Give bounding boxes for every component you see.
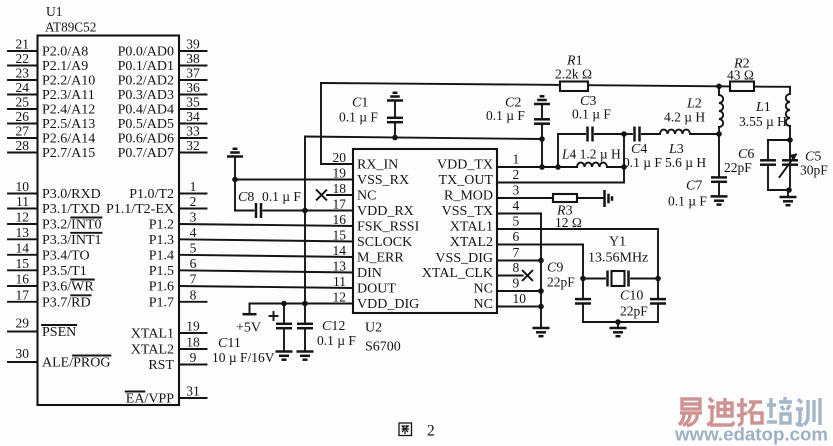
svg-text:22: 22 xyxy=(16,51,30,66)
figure caption 图 2 xyxy=(399,423,412,436)
svg-text:26: 26 xyxy=(16,109,30,124)
wire U2 pin 5 XTAL1 xyxy=(497,228,658,230)
wire P1.4 to M_ERR xyxy=(179,255,353,257)
svg-text:+5V: +5V xyxy=(236,321,261,336)
svg-text:EA/VPP: EA/VPP xyxy=(126,392,174,407)
svg-text:P1.1/T2-EX: P1.1/T2-EX xyxy=(106,202,174,217)
ground below C12 xyxy=(297,350,314,353)
svg-text:P3.3/INT1: P3.3/INT1 xyxy=(42,233,102,248)
svg-text:U1: U1 xyxy=(46,4,63,19)
svg-text:C1: C1 xyxy=(352,96,368,111)
crystal network bottom rail xyxy=(583,321,658,323)
U1 pin 37 P0.2/AD2 stub xyxy=(179,79,207,81)
resistor R2 43 ohm xyxy=(730,82,754,92)
svg-text:0.1 µ F: 0.1 µ F xyxy=(486,108,525,123)
junction tank right node bottom xyxy=(621,164,627,170)
svg-text:38: 38 xyxy=(186,51,200,66)
svg-text:VDD_DIG: VDD_DIG xyxy=(357,297,419,312)
U1 pin 9 RST stub xyxy=(179,364,207,366)
IC U1 AT89C52 body xyxy=(38,36,180,406)
svg-text:15: 15 xyxy=(16,256,30,271)
svg-text:14: 14 xyxy=(333,243,347,258)
svg-text:P0.2/AD2: P0.2/AD2 xyxy=(118,74,174,89)
svg-text:39: 39 xyxy=(186,37,200,52)
svg-text:2: 2 xyxy=(427,423,435,440)
junction L2/L3/C7 node xyxy=(716,131,722,137)
wire P1.3 to SCLOCK xyxy=(179,239,353,241)
svg-text:9: 9 xyxy=(190,350,197,365)
U1 pin 26 P2.5/A13 stub xyxy=(8,123,38,125)
junction C1 bottom xyxy=(392,135,398,141)
svg-text:P3.4/TO: P3.4/TO xyxy=(42,248,90,263)
no-connect X at U2 pin 18 xyxy=(317,190,327,200)
svg-text:U2: U2 xyxy=(365,321,382,336)
svg-text:6: 6 xyxy=(190,256,197,271)
wire top supply line (left section) xyxy=(321,83,560,85)
svg-text:P3.7/RD: P3.7/RD xyxy=(42,295,91,310)
svg-text:23: 23 xyxy=(16,66,30,81)
U1 pin 23 P2.2/A10 stub xyxy=(8,79,38,81)
svg-text:5.6 µ H: 5.6 µ H xyxy=(665,155,706,170)
svg-text:3: 3 xyxy=(190,210,197,225)
wire U2 pin 6 XTAL2 xyxy=(497,244,583,246)
svg-text:13: 13 xyxy=(333,259,347,274)
svg-text:24: 24 xyxy=(16,80,30,95)
svg-text:0.1 µ F: 0.1 µ F xyxy=(572,107,611,122)
U1 pin 24 P2.3/A11 stub xyxy=(8,94,38,96)
svg-text:19: 19 xyxy=(186,319,200,334)
wire P1.6 to DOUT xyxy=(179,286,353,288)
svg-text:35: 35 xyxy=(186,95,200,110)
svg-text:P2.1/A9: P2.1/A9 xyxy=(42,59,88,74)
svg-text:0.1 µ F: 0.1 µ F xyxy=(339,110,378,125)
svg-text:8: 8 xyxy=(513,260,520,275)
U1 pin 2 stub (unconnected) xyxy=(179,208,207,210)
svg-text:25: 25 xyxy=(16,95,30,110)
svg-text:RX_IN: RX_IN xyxy=(357,158,398,173)
wire P1.2 to FSK_RSSI xyxy=(179,224,353,226)
svg-text:27: 27 xyxy=(16,124,30,139)
svg-text:13: 13 xyxy=(16,225,30,240)
capacitor C6 22pF (left leg) xyxy=(767,140,769,160)
svg-text:22pF: 22pF xyxy=(547,275,575,290)
svg-text:NC: NC xyxy=(474,282,493,297)
ground below tank xyxy=(786,187,792,193)
svg-text:14: 14 xyxy=(16,240,30,255)
U1 pin 34 P0.5/AD5 stub xyxy=(179,123,207,125)
svg-text:5: 5 xyxy=(513,214,520,229)
ground below crystal network xyxy=(617,322,619,328)
svg-text:C10: C10 xyxy=(620,289,643,304)
svg-text:R_MOD: R_MOD xyxy=(444,189,493,204)
U1 pin 22 P2.1/A9 stub xyxy=(8,65,38,67)
svg-text:L1: L1 xyxy=(755,100,771,115)
svg-text:P0.1/AD1: P0.1/AD1 xyxy=(118,59,174,74)
U1 pin 31 EA/VPP stub xyxy=(179,397,207,399)
wire bypass line from rail to C2 xyxy=(305,137,542,140)
plus sign of C11 xyxy=(270,315,278,317)
ground below C7 xyxy=(711,195,728,198)
inductor L3 5.6uH xyxy=(660,130,690,134)
svg-text:NC: NC xyxy=(357,189,376,204)
junction crystal left node xyxy=(580,276,586,282)
U1 pin 38 P0.1/AD1 stub xyxy=(179,65,207,67)
C1 to bypass line stub xyxy=(394,122,396,137)
svg-text:TX_OUT: TX_OUT xyxy=(439,173,494,188)
svg-text:DIN: DIN xyxy=(357,266,382,281)
U1 pin 29 PSEN stub xyxy=(8,331,38,333)
ground (pointing right) after R3 xyxy=(603,190,606,207)
svg-text:PSEN: PSEN xyxy=(42,325,76,340)
svg-text:1: 1 xyxy=(190,179,197,194)
no-connect X at pin 8 xyxy=(523,271,533,281)
svg-text:10: 10 xyxy=(16,179,30,194)
junction VSS_RX node xyxy=(232,177,238,183)
svg-text:VSS_DIG: VSS_DIG xyxy=(435,251,493,266)
wire R3 to ground xyxy=(577,197,604,199)
svg-text:17: 17 xyxy=(333,197,347,212)
svg-text:20: 20 xyxy=(333,150,347,165)
svg-text:16: 16 xyxy=(16,272,30,287)
svg-text:P2.3/A11: P2.3/A11 xyxy=(42,88,95,103)
capacitor C7 0.1uF to ground xyxy=(718,134,720,177)
capacitor C2 0.1uF with ground above xyxy=(541,104,543,119)
U1 pin 13 P3.3/INT1 stub xyxy=(8,238,38,240)
svg-text:0.1 µ F: 0.1 µ F xyxy=(668,194,707,209)
U1 pin 8 stub (unconnected) xyxy=(179,301,207,303)
ground (pointing up) above C1 xyxy=(387,99,403,102)
junction tank right node top xyxy=(621,131,627,137)
capacitor C10 22pF xyxy=(650,298,666,301)
svg-text:DOUT: DOUT xyxy=(357,282,396,297)
svg-text:11: 11 xyxy=(333,274,346,289)
svg-text:16: 16 xyxy=(333,212,347,227)
wire U2 pin 4 VSS_TX xyxy=(497,213,541,215)
svg-text:XTAL_CLK: XTAL_CLK xyxy=(422,266,493,281)
svg-text:P0.5/AD5: P0.5/AD5 xyxy=(118,117,174,132)
svg-text:AT89C52: AT89C52 xyxy=(45,20,96,35)
U1 pin 16 P3.6/WR stub xyxy=(8,285,38,287)
ground (pointing up) at C8 node xyxy=(227,155,243,158)
svg-text:18: 18 xyxy=(186,335,200,350)
svg-text:P0.3/AD3: P0.3/AD3 xyxy=(118,88,174,103)
svg-text:22pF: 22pF xyxy=(620,304,648,319)
svg-text:1: 1 xyxy=(513,152,520,167)
ground stub above C8 node xyxy=(234,157,236,180)
U1 pin 19 XTAL1 stub xyxy=(179,332,207,334)
svg-text:30: 30 xyxy=(16,346,30,361)
overline on EA of EA/VPP xyxy=(126,391,145,393)
inductor L4 1.2uH xyxy=(558,166,577,168)
capacitor C4 0.1uF xyxy=(624,133,632,135)
capacitor C3 0.1uF xyxy=(586,127,589,142)
capacitor C8 0.1uF in series between VSS_RX node and VDD_RX rail xyxy=(234,180,236,211)
resistor R1 2.2k xyxy=(560,82,588,92)
junction C12 / rail tap on VDD_DIG wire xyxy=(302,301,308,307)
svg-text:17: 17 xyxy=(16,287,30,302)
svg-text:XTAL1: XTAL1 xyxy=(450,220,493,235)
svg-text:21: 21 xyxy=(16,37,30,52)
wire U2 pin 19 VSS_RX to C8 node xyxy=(235,179,353,181)
svg-text:12: 12 xyxy=(16,210,30,225)
ground (pointing up) above C2 xyxy=(534,103,550,106)
svg-text:XTAL2: XTAL2 xyxy=(450,235,493,250)
U1 pin 15 P3.5/T1 stub xyxy=(8,269,38,271)
svg-text:0.1 µ F: 0.1 µ F xyxy=(262,189,301,204)
U1 pin 36 P0.3/AD3 stub xyxy=(179,94,207,96)
svg-text:28: 28 xyxy=(16,138,30,153)
wire U2 pin 12 VDD_DIG to +5V node xyxy=(250,303,354,305)
svg-text:XTAL1: XTAL1 xyxy=(131,327,174,342)
svg-text:P1.0/T2: P1.0/T2 xyxy=(129,187,174,202)
svg-text:P2.6/A14: P2.6/A14 xyxy=(42,132,95,147)
svg-text:P1.6: P1.6 xyxy=(149,280,174,295)
ground below C11 xyxy=(276,350,293,353)
svg-text:31: 31 xyxy=(186,384,200,399)
svg-text:4: 4 xyxy=(513,198,520,213)
wire R2 to L1 xyxy=(754,86,790,88)
wire U2 pin 17 VDD_RX to vertical rail xyxy=(305,210,353,212)
svg-text:34: 34 xyxy=(186,109,200,124)
svg-text:7: 7 xyxy=(190,272,197,287)
svg-text:C11: C11 xyxy=(218,336,241,351)
svg-text:36: 36 xyxy=(186,80,200,95)
resistor R3 12 ohm xyxy=(553,194,577,202)
U1 pin 10 P3.0/RXD stub xyxy=(8,193,38,195)
wire U2 pin 10 NC xyxy=(497,306,541,308)
svg-text:0.1 µ F: 0.1 µ F xyxy=(317,333,356,348)
svg-text:2.2k Ω: 2.2k Ω xyxy=(555,67,592,82)
variable capacitor C5 30pF (right leg) xyxy=(789,140,791,160)
svg-text:4.2 µ H: 4.2 µ H xyxy=(664,110,705,125)
capacitor C1 0.1uF with ground above xyxy=(394,101,396,118)
IC U2 S6700 body xyxy=(353,149,497,313)
svg-text:4: 4 xyxy=(190,225,197,240)
svg-text:VDD_TX: VDD_TX xyxy=(437,158,493,173)
svg-text:10: 10 xyxy=(513,291,527,306)
svg-text:VSS_RX: VSS_RX xyxy=(357,173,409,188)
U1 pin 14 P3.4/TO stub xyxy=(8,254,38,256)
svg-text:P2.0/A8: P2.0/A8 xyxy=(42,45,88,60)
vertical ground rail xyxy=(540,214,542,328)
svg-text:2: 2 xyxy=(513,167,520,182)
svg-text:C7: C7 xyxy=(686,179,702,194)
wire rail from top supply line down to U2 pin 20 RX_IN xyxy=(320,83,322,164)
svg-text:10 µ F/16V: 10 µ F/16V xyxy=(212,350,275,365)
svg-text:C9: C9 xyxy=(547,261,563,276)
svg-text:3: 3 xyxy=(513,183,520,198)
capacitor C9 22pF xyxy=(575,298,591,301)
U2 pin 18 NC stub xyxy=(327,194,353,196)
wire U2 pin 3 R_MOD to R3 xyxy=(497,197,553,199)
U1 pin 27 P2.6/A14 stub xyxy=(8,137,38,139)
svg-text:2: 2 xyxy=(190,194,197,209)
inductor L2 4.2uH (vertical) xyxy=(718,86,720,95)
svg-text:3.55 µ H: 3.55 µ H xyxy=(739,114,787,129)
C5 variable arrow xyxy=(780,155,797,178)
svg-text:XTAL2: XTAL2 xyxy=(131,343,174,358)
svg-text:32: 32 xyxy=(186,138,200,153)
junction C2 on bypass line xyxy=(539,136,545,142)
junction at pin 17 / C8 / rail xyxy=(302,208,308,214)
ground at bottom of VSS rail xyxy=(533,327,550,330)
junction L2 top xyxy=(716,84,722,90)
wire U2 pin 2 TX_OUT xyxy=(497,182,624,184)
capacitor C11 (electrolytic 10uF/16V) xyxy=(283,304,285,322)
svg-text:C8: C8 xyxy=(238,190,254,205)
+5V supply terminal xyxy=(249,304,251,314)
U1 pin 33 P0.6/AD6 stub xyxy=(179,137,207,139)
svg-text:P0.7/AD7: P0.7/AD7 xyxy=(118,146,174,161)
junction L1 bottom xyxy=(787,137,793,143)
wire U2 pin 9 NC xyxy=(497,290,541,292)
svg-text:S6700: S6700 xyxy=(365,340,401,355)
U1 pin 1 stub (unconnected) xyxy=(179,193,207,195)
svg-text:P2.4/A12: P2.4/A12 xyxy=(42,103,95,118)
watermark 易迪拓培训 (approximated strokes) xyxy=(679,399,702,426)
svg-text:P2.5/A13: P2.5/A13 xyxy=(42,117,95,132)
junction crystal right node xyxy=(655,276,661,282)
tank right leg down to TX_OUT wire xyxy=(623,134,625,183)
svg-text:P3.2/INT0: P3.2/INT0 xyxy=(42,218,102,233)
svg-text:9: 9 xyxy=(513,276,520,291)
C3 branch wire xyxy=(558,133,585,135)
U1 pin 12 P3.2/INT0 stub xyxy=(8,223,38,225)
svg-text:11: 11 xyxy=(16,194,29,209)
U1 pin 18 XTAL2 stub xyxy=(179,348,207,350)
svg-text:L4 1.2 µ H: L4 1.2 µ H xyxy=(561,147,621,162)
svg-text:P3.0/RXD: P3.0/RXD xyxy=(42,187,101,202)
svg-text:P3.1/TXD: P3.1/TXD xyxy=(42,202,100,217)
U1 pin 21 P2.0/A8 stub xyxy=(8,50,38,52)
U1 pin 32 P0.7/AD7 stub xyxy=(179,152,207,154)
U1 pin 39 P0.0/AD0 stub xyxy=(179,50,207,52)
inductor L1 3.55uH (vertical) xyxy=(789,87,791,94)
svg-text:33: 33 xyxy=(186,124,200,139)
svg-text:18: 18 xyxy=(333,181,347,196)
U1 pin 25 P2.4/A12 stub xyxy=(8,108,38,110)
junction C11 tap xyxy=(281,301,287,307)
svg-text:19: 19 xyxy=(333,166,347,181)
U1 pin 35 P0.4/AD4 stub xyxy=(179,108,207,110)
svg-text:SCLOCK: SCLOCK xyxy=(357,235,412,250)
wire U2 pin 7 VSS_DIG xyxy=(497,260,541,262)
svg-text:12 Ω: 12 Ω xyxy=(555,215,582,230)
svg-text:7: 7 xyxy=(513,245,520,260)
svg-text:ALE/PROG: ALE/PROG xyxy=(42,356,110,371)
svg-text:30pF: 30pF xyxy=(800,163,828,178)
svg-text:13.56MHz: 13.56MHz xyxy=(588,251,648,266)
svg-text:C12: C12 xyxy=(322,319,345,334)
tank bottom bar xyxy=(768,189,790,191)
svg-text:43 Ω: 43 Ω xyxy=(727,68,754,83)
junction L4/C3 left node xyxy=(555,164,561,170)
C6/C5 parallel tank top bar xyxy=(768,139,790,141)
svg-text:NC: NC xyxy=(474,297,493,312)
capacitor C12 0.1uF xyxy=(304,304,306,322)
svg-text:P2.7/A15: P2.7/A15 xyxy=(42,146,95,161)
svg-text:37: 37 xyxy=(186,66,200,81)
svg-text:P0.4/AD4: P0.4/AD4 xyxy=(118,103,174,118)
svg-text:P3.6/WR: P3.6/WR xyxy=(42,280,94,295)
svg-text:P1.2: P1.2 xyxy=(149,218,174,233)
svg-text:VSS_TX: VSS_TX xyxy=(442,204,493,219)
wire top supply line (middle section) xyxy=(588,85,730,86)
svg-text:12: 12 xyxy=(333,290,347,305)
L4/C3 parallel tank: left leg xyxy=(557,134,559,167)
svg-text:P1.4: P1.4 xyxy=(149,248,174,263)
U1 pin 11 P3.1/TXD stub xyxy=(8,208,38,210)
U1 pin 30 ALE/PROG stub xyxy=(8,361,38,363)
U1 pin 17 P3.7/RD stub xyxy=(8,301,38,303)
wire P1.5 to DIN xyxy=(179,270,353,272)
svg-text:22pF: 22pF xyxy=(724,160,752,175)
svg-text:P0.6/AD6: P0.6/AD6 xyxy=(118,132,174,147)
svg-text:P0.0/AD0: P0.0/AD0 xyxy=(118,45,174,60)
wire U2 pin 1 VDD_TX xyxy=(497,166,558,168)
svg-text:www.edatop.com: www.edatop.com xyxy=(674,424,828,445)
svg-text:15: 15 xyxy=(333,228,347,243)
svg-text:P1.5: P1.5 xyxy=(149,264,174,279)
svg-text:8: 8 xyxy=(190,287,197,302)
crystal Y1 13.56MHz xyxy=(583,278,605,280)
svg-text:5: 5 xyxy=(190,240,197,255)
U2 pin 8 XTAL_CLK stub xyxy=(497,275,523,277)
svg-text:P3.5/T1: P3.5/T1 xyxy=(42,264,87,279)
junction C2 bottom on pin1 wire xyxy=(539,164,545,170)
svg-text:VDD_RX: VDD_RX xyxy=(357,204,414,219)
svg-text:P2.2/A10: P2.2/A10 xyxy=(42,74,95,89)
svg-text:P1.3: P1.3 xyxy=(149,233,174,248)
svg-text:6: 6 xyxy=(513,229,520,244)
svg-text:M_ERR: M_ERR xyxy=(357,251,404,266)
svg-text:0.1 µ F: 0.1 µ F xyxy=(623,155,662,170)
U1 pin 28 P2.7/A15 stub xyxy=(8,152,38,154)
wire vertical rail from bypass line down to VDD_DIG node xyxy=(304,137,306,304)
svg-text:FSK_RSSI: FSK_RSSI xyxy=(357,220,420,235)
svg-text:P1.7: P1.7 xyxy=(149,295,174,310)
svg-text:RST: RST xyxy=(148,358,174,373)
svg-text:29: 29 xyxy=(16,316,30,331)
svg-text:Y1: Y1 xyxy=(609,235,626,250)
